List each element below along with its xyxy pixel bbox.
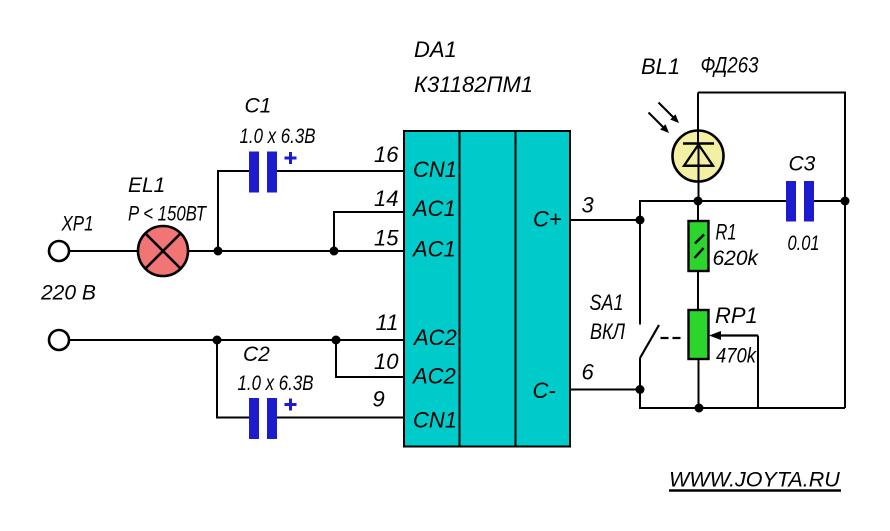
wire R1 top lead — [697, 201, 699, 221]
wire pin 3 to node A — [570, 219, 640, 221]
svg-text:ВКЛ: ВКЛ — [590, 319, 626, 344]
svg-text:BL1: BL1 — [641, 54, 680, 79]
svg-text:620k: 620k — [713, 247, 760, 270]
watermark WWW.JOYTA.RU — [669, 468, 841, 492]
polarity plus of C1 — [285, 152, 297, 164]
wire switch upper stub — [639, 220, 641, 325]
junction BL1 bottom node — [694, 197, 703, 206]
wire pin 14 branch — [334, 212, 404, 251]
junction node A — [636, 216, 645, 225]
wire pin 10 branch — [336, 340, 404, 377]
svg-text:C+: C+ — [533, 207, 562, 232]
terminal XP1 lower contact — [49, 330, 69, 350]
junction RP1 bottom — [695, 404, 704, 413]
capacitor C3 — [786, 181, 814, 222]
svg-text:P < 150ВТ: P < 150ВТ — [128, 203, 208, 226]
IC internal divider left — [459, 131, 461, 447]
svg-text:220 В: 220 В — [40, 282, 96, 305]
svg-text:14: 14 — [374, 186, 398, 211]
switch SA1 blade — [640, 325, 659, 358]
wire C2 to IC pin 9 — [277, 417, 404, 419]
op-amp IC DA1 body — [404, 131, 570, 447]
IC internal divider right — [515, 131, 517, 447]
wire top rail — [698, 93, 845, 202]
svg-text:CN1: CN1 — [413, 157, 457, 182]
wire BL1 vertical lead — [697, 93, 699, 146]
RP1 wiper arrow — [709, 331, 758, 340]
wire switch lower stub — [639, 358, 641, 390]
wire RP1 bottom lead — [698, 359, 700, 408]
light arrow 2 — [649, 113, 670, 134]
svg-text:10: 10 — [374, 349, 399, 374]
svg-text:AC1: AC1 — [411, 196, 456, 221]
svg-text:470k: 470k — [716, 345, 757, 368]
svg-text:SA1: SA1 — [590, 290, 624, 315]
wire C1 left leg — [218, 171, 249, 251]
wire EL1 to IC pin 15 — [188, 250, 404, 252]
svg-text:WWW.JOYTA.RU: WWW.JOYTA.RU — [669, 468, 840, 492]
svg-text:CN1: CN1 — [413, 408, 457, 433]
terminal XP1 upper contact — [49, 241, 69, 261]
wire R1 to RP1 — [697, 271, 699, 310]
lamp EL1 — [138, 226, 188, 276]
svg-text:6: 6 — [582, 360, 595, 385]
wire XP1 upper to lamp EL1 — [70, 250, 139, 252]
svg-text:15: 15 — [374, 226, 399, 251]
svg-text:ФД263: ФД263 — [701, 53, 760, 78]
svg-text:C-: C- — [533, 378, 556, 403]
junction pin 10 branch — [332, 336, 341, 345]
switch SA1 dashed link — [661, 337, 681, 339]
svg-text:9: 9 — [373, 387, 385, 412]
wire XP1 lower to IC pin 11 — [70, 339, 405, 341]
svg-text:11: 11 — [376, 310, 399, 335]
svg-text:1.0 x 6.3В: 1.0 x 6.3В — [240, 125, 316, 148]
wire node B to bottom rail — [640, 390, 845, 409]
junction C2 branch — [213, 336, 222, 345]
capacitor C1 — [249, 152, 277, 193]
wire C2 left leg — [217, 340, 249, 418]
junction C1 branch — [214, 247, 223, 256]
svg-text:RP1: RP1 — [715, 303, 758, 328]
wire wiper drop — [757, 336, 759, 409]
wire right rail down — [844, 201, 846, 408]
svg-text:XP1: XP1 — [61, 213, 94, 236]
wire pin 6 — [570, 389, 640, 391]
svg-text:0.01: 0.01 — [788, 231, 820, 255]
junction node B — [636, 385, 645, 394]
svg-text:16: 16 — [374, 142, 399, 167]
capacitor C2 — [249, 398, 277, 439]
svg-text:AC2: AC2 — [411, 364, 456, 389]
photodiode BL1 — [673, 131, 724, 182]
svg-text:3: 3 — [582, 193, 595, 218]
potentiometer RP1 — [689, 310, 709, 359]
svg-text:DA1: DA1 — [414, 37, 457, 62]
svg-text:AC2: AC2 — [412, 325, 457, 350]
light arrow 1 — [659, 103, 680, 124]
junction pin 14 branch — [330, 247, 339, 256]
svg-text:C1: C1 — [245, 95, 272, 118]
svg-text:C3: C3 — [789, 153, 816, 176]
svg-text:К31182ПМ1: К31182ПМ1 — [414, 72, 533, 97]
svg-text:1.0 x 6.3В: 1.0 x 6.3В — [238, 372, 314, 395]
polarity plus of C2 — [285, 399, 297, 411]
junction right rail — [841, 197, 850, 206]
wire node A up to photodiode rail — [640, 201, 786, 220]
wire C1 to IC pin 16 — [277, 170, 404, 172]
svg-text:C2: C2 — [243, 343, 270, 366]
svg-text:R1: R1 — [716, 220, 737, 245]
photoresistor R1 — [689, 221, 709, 271]
wire C3 right to rail corner — [814, 200, 845, 202]
svg-text:EL1: EL1 — [128, 174, 165, 197]
svg-text:AC1: AC1 — [411, 237, 456, 262]
